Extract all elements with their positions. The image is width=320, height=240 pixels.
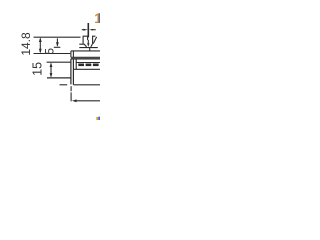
- wire mounting bar bottom: [71, 56, 100, 58]
- wire dim line 1 left segment: [82, 29, 85, 31]
- wire stub joining flange to bar: [89, 48, 91, 51]
- wire dimension line 15 vertical: [50, 64, 52, 77]
- wire bottom view inner vertical: [75, 59, 77, 70]
- arrowhead 15 down: [50, 73, 53, 78]
- wire pcb line right segment: [74, 84, 100, 86]
- slot 2 in bar: [86, 64, 92, 67]
- label 1 blue subpixel edge: [99, 13, 100, 23]
- wire channel right vertical: [72, 59, 74, 85]
- slot 3 in bar: [93, 64, 99, 67]
- arrowhead dim1 pointing right: [83, 29, 87, 31]
- slot 1 in bar: [78, 64, 84, 67]
- wire pcb line left segment: [60, 84, 68, 86]
- wire mounting bar inner vertical: [72, 51, 74, 57]
- wire bottom view bar top: [71, 58, 100, 60]
- wire dimension line 14.8 vertical: [39, 39, 41, 53]
- wire channel bottom flange line: [79, 47, 98, 49]
- wire centerline upper segment: [87, 23, 89, 37]
- arrowhead 15 up: [50, 63, 53, 68]
- wire bottom view bar slot row line: [76, 62, 100, 64]
- wire centerline below segment b: [70, 92, 72, 101]
- wire centerline mid segment: [87, 40, 89, 44]
- wire lower surface line of side view: [34, 53, 71, 55]
- wire extension line under 5-dim arrow: [54, 46, 61, 48]
- wire centerline below segment a: [70, 86, 72, 91]
- wire dim line 1 right segment: [91, 29, 95, 31]
- corner fragment blue: [98, 117, 100, 120]
- wire mounting bar left edge: [70, 51, 72, 57]
- wire dimension line 5 vertical: [56, 38, 58, 45]
- arrowhead bottom dim pointing left: [72, 99, 77, 102]
- wire right foot diagonal: [91, 44, 93, 47]
- arrowhead 14.8 up: [39, 37, 42, 42]
- wire boss inverted-U outline: [83, 36, 88, 44]
- arrowhead centerline down: [87, 43, 89, 47]
- background: [0, 0, 100, 120]
- arrowhead 5 down: [56, 42, 59, 47]
- corner fragment orange: [96, 117, 98, 120]
- wire block bottom line: [47, 77, 71, 79]
- arrowhead dim1 pointing left: [89, 29, 93, 31]
- wire left foot line with bevel: [79, 44, 86, 47]
- wire bottom view bar bottom: [73, 68, 100, 70]
- svg-text:14.8: 14.8: [19, 32, 33, 56]
- wire bottom dimension line horizontal: [76, 100, 101, 102]
- wire channel left vertical: [70, 59, 72, 85]
- wire right wall of channel: [93, 36, 96, 43]
- wire right bevel diagonal: [93, 37, 96, 44]
- wire block top line: [47, 61, 71, 63]
- arrowhead 14.8 down: [39, 49, 42, 54]
- wire top surface line of side view: [34, 36, 81, 38]
- wire mounting bar top: [71, 50, 100, 52]
- svg-text:15: 15: [30, 62, 44, 76]
- svg-text:5: 5: [43, 48, 57, 55]
